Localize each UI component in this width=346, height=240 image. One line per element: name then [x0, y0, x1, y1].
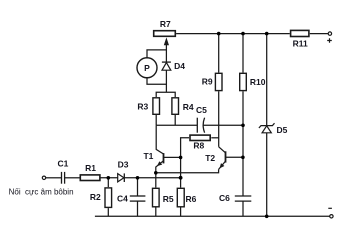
- wire collector node line to C5: [156, 124, 197, 126]
- resistor R10: [240, 73, 247, 90]
- transistor T1: [156, 125, 181, 173]
- svg-text:R1: R1: [85, 163, 96, 173]
- svg-text:C1: C1: [57, 159, 68, 169]
- wire D5 column bottom: [266, 133, 268, 217]
- node bottom rail / D5: [265, 215, 269, 219]
- wire top rail right (R11 to + terminal): [310, 33, 328, 35]
- wire emitter link T1-T2: [156, 169, 219, 172]
- node main / R2: [107, 176, 111, 180]
- node T2 base / R10 col: [241, 156, 245, 160]
- terminal + (top right): [328, 32, 331, 35]
- wire R4 bottom lead: [174, 115, 176, 125]
- node main / C4: [136, 176, 140, 180]
- svg-text:R3: R3: [137, 102, 148, 112]
- svg-text:D4: D4: [174, 61, 185, 71]
- label +: [327, 38, 332, 43]
- resistor R7: [154, 31, 176, 37]
- wire R5 leads: [155, 173, 157, 217]
- resistor R8: [190, 135, 210, 140]
- wire R3/R4 top link: [156, 92, 175, 97]
- wiper arrow of R7: [164, 37, 169, 45]
- resistor R11: [291, 30, 309, 36]
- svg-text:R2: R2: [90, 192, 101, 202]
- wire C4 bottom lead: [137, 201, 139, 216]
- wire C1 to R1: [65, 177, 80, 179]
- wire C4 top lead: [137, 178, 139, 196]
- wire R8 right lead: [211, 137, 218, 139]
- zener diode D5: [259, 123, 275, 133]
- resistor R4: [172, 98, 179, 115]
- svg-text:T2: T2: [205, 153, 215, 163]
- label -: [328, 207, 332, 209]
- svg-text:D3: D3: [118, 160, 129, 170]
- node top rail / R10: [241, 32, 245, 36]
- node T1 base / R8: [179, 156, 183, 160]
- wire R1 to D3: [101, 177, 118, 179]
- wire P bottom stub: [147, 78, 166, 85]
- lamp P: [137, 58, 157, 78]
- node emitter / R5: [154, 171, 158, 175]
- resistor R5: [153, 188, 160, 207]
- terminal input (left): [42, 176, 45, 179]
- capacitor C4: [130, 196, 146, 201]
- transistor T2: [219, 147, 243, 170]
- resistor R9: [215, 73, 222, 90]
- svg-text:C5: C5: [196, 105, 207, 115]
- resistor R6: [177, 188, 184, 207]
- wire R9 column bottom to T2 collector: [218, 91, 220, 147]
- capacitor C6: [235, 196, 252, 201]
- wire wiper shaft down to D4: [165, 45, 167, 62]
- wire D3 to base node: [124, 177, 180, 179]
- svg-text:C4: C4: [117, 193, 128, 203]
- wire bottom rail: [95, 215, 330, 217]
- resistor R3: [153, 98, 160, 115]
- wire R6 leads: [180, 178, 182, 217]
- resistor R1: [80, 175, 100, 181]
- svg-text:R5: R5: [163, 194, 174, 204]
- diode D3: [118, 173, 125, 182]
- wire R8 left lead down to base/main: [181, 138, 190, 178]
- capacitor C5: [197, 118, 204, 133]
- wire R10 column middle: [242, 91, 244, 196]
- capacitor C1: [62, 172, 65, 184]
- diode D4: [162, 62, 171, 70]
- wire terminal to C1: [46, 177, 62, 179]
- node C5 / R10 col: [241, 124, 245, 128]
- svg-text:R8: R8: [193, 140, 204, 150]
- terminal - (bottom right): [330, 215, 333, 218]
- svg-text:R11: R11: [293, 39, 308, 49]
- svg-text:R4: R4: [183, 102, 194, 112]
- svg-text:Nối cực âm bôbin: Nối cực âm bôbin: [9, 187, 74, 196]
- svg-text:C6: C6: [219, 193, 230, 203]
- wire R3 bottom lead: [155, 115, 157, 125]
- wire C5 to R10 column: [203, 124, 243, 126]
- resistor R2: [105, 188, 112, 208]
- svg-text:D5: D5: [276, 125, 287, 135]
- node top rail / R9: [217, 32, 221, 36]
- wire D4 to R3/R4 node: [165, 70, 167, 92]
- svg-text:R6: R6: [185, 194, 196, 204]
- svg-text:R7: R7: [160, 19, 171, 29]
- wire D5 column top: [266, 34, 268, 126]
- svg-text:R9: R9: [202, 77, 213, 87]
- wire R10 column top: [242, 34, 244, 73]
- wire R2 leads: [107, 178, 109, 217]
- svg-text:P: P: [144, 63, 150, 73]
- node dots: [107, 32, 269, 218]
- svg-text:T1: T1: [143, 151, 153, 161]
- wire R9 column top: [218, 34, 220, 73]
- node top rail / D5: [265, 32, 269, 36]
- wire top rail left (R7 to R11): [176, 33, 290, 35]
- node main / R6: [179, 176, 183, 180]
- wire C6 bottom lead: [242, 201, 244, 216]
- wire P top stub: [147, 50, 166, 58]
- svg-text:R10: R10: [250, 77, 266, 87]
